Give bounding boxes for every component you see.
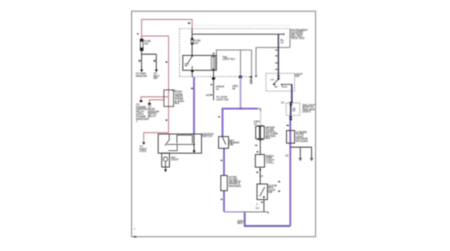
svg-text:LIGHT SW: LIGHT SW	[216, 97, 229, 101]
svg-text:WASHER): WASHER)	[229, 184, 241, 188]
svg-text:HEAD: HEAD	[281, 86, 287, 89]
svg-text:C2: C2	[285, 153, 289, 157]
svg-text:WINDOW): WINDOW)	[136, 117, 148, 121]
svg-text:CTRL): CTRL)	[266, 160, 274, 164]
svg-text:LIGHT RLY: LIGHT RLY	[222, 57, 235, 61]
svg-text:10A: 10A	[144, 41, 149, 45]
svg-text:A22: A22	[206, 93, 211, 97]
svg-text:SW: SW	[295, 74, 300, 78]
svg-text:BLK: BLK	[266, 136, 271, 140]
svg-text:C2: C2	[256, 206, 260, 210]
svg-text:SPOILER): SPOILER)	[296, 139, 308, 143]
svg-text:LOCK: LOCK	[139, 149, 146, 153]
svg-text:TAIL: TAIL	[274, 86, 279, 89]
svg-text:WINDOW: WINDOW	[136, 74, 148, 78]
svg-text:LIGHT): LIGHT)	[302, 109, 311, 113]
svg-text:SW: SW	[229, 143, 234, 147]
svg-text:C2: C2	[249, 80, 253, 84]
svg-text:C2: C2	[172, 88, 176, 92]
svg-text:SW: SW	[153, 76, 158, 80]
svg-text:10A: 10A	[194, 41, 199, 45]
svg-text:A6: A6	[232, 87, 236, 91]
svg-text:WHT: WHT	[237, 221, 243, 225]
svg-text:SW: SW	[268, 190, 273, 194]
svg-text:OFF: OFF	[270, 79, 275, 81]
svg-text:BLK: BLK	[175, 101, 180, 105]
svg-text:SWITCH: SWITCH	[202, 134, 212, 138]
svg-text:TACH: A20): TACH: A20)	[291, 36, 305, 40]
svg-text:LIGHT: LIGHT	[171, 158, 179, 162]
